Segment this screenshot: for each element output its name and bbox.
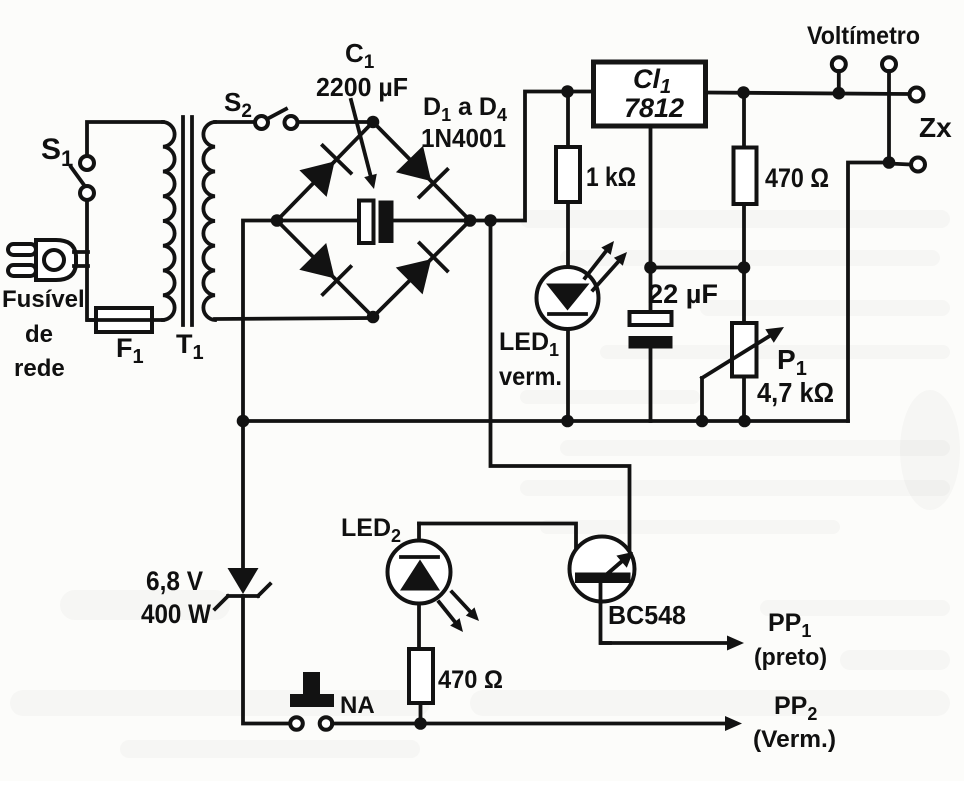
terminal Voltímetro left [832,57,846,93]
label Voltímetro [807,22,920,50]
capacitor 22 µF [629,312,673,421]
transformer T1 primary winding [163,122,175,320]
svg-text:D1 a D4: D1 a D4 [423,93,507,125]
svg-text:(Verm.): (Verm.) [753,726,836,753]
wire: CI1 output to terminals [706,93,910,95]
wire: negative rail to pushbutton [243,596,290,724]
svg-text:6,8 V: 6,8 V [146,566,203,596]
label F1 [116,333,144,368]
capacitor C1 [277,201,470,244]
diode D1 (top-left) [299,146,350,197]
fuse F1 [88,308,163,332]
wire: secondary bottom to bridge bottom node [215,318,373,319]
label D1 a D4 1N4001 [421,93,507,153]
node CI1 output / 470 [737,86,750,99]
potentiometer P1 [702,268,784,422]
label T1 [176,329,204,364]
svg-text:22 µF: 22 µF [648,279,718,309]
node bridge right [464,214,477,227]
resistor 1 kΩ [556,92,580,268]
node PP2 resistor [414,717,427,730]
wire: ground link to 470/P1 junction [651,266,745,270]
terminal Voltímetro right [882,57,896,162]
label Zx [919,112,952,143]
transformer T1 secondary winding [203,122,215,320]
wire: bridge right corner to CI1 input [470,92,593,221]
label S1 [41,133,73,171]
wire: Zx node to ground bus [848,163,889,422]
svg-text:1 kΩ: 1 kΩ [586,162,636,192]
label C1 2200 µF with leader arrow [316,38,408,189]
label PP1 (preto) [754,609,827,671]
diode D3 (bottom-left) [299,243,350,294]
svg-text:Fusível: Fusível [2,286,85,313]
node CI1 input / 1k [561,85,574,98]
label 470 Ω [765,163,829,193]
output PP1 wire and arrow [601,602,745,651]
node Zx lower [883,156,896,169]
label 1 kΩ [586,162,636,192]
wire: top rail S1 to T1 primary [87,122,163,156]
switch S1 [71,156,94,200]
terminal Zx bottom [889,158,925,172]
node bridge left [271,214,284,227]
svg-text:de: de [25,321,53,348]
svg-text:(preto): (preto) [754,644,827,671]
svg-text:4,7 kΩ: 4,7 kΩ [757,377,834,408]
bridge rectifier diamond wires [277,122,470,317]
output PP2 wire and arrow [332,716,742,731]
node ground link right [738,261,751,274]
transistor Q1 BC548 [570,537,635,603]
pushbutton NA [290,672,334,730]
label 6,8 V 400 W [141,566,211,629]
node bus LED1 [561,415,574,428]
wire: ground bus [243,419,848,423]
svg-text:470 Ω: 470 Ω [438,666,503,694]
node voltmeter left [833,87,846,100]
mains plug [8,240,88,280]
resistor 470 Ω (bottom) [409,649,433,724]
node bridge bottom [367,311,380,324]
LED2 [388,524,480,650]
terminal Zx top [910,88,924,102]
node ground link left [644,261,657,274]
zener diode 6,8 V [215,568,270,609]
label S2 [224,87,252,122]
node bus left [237,415,250,428]
svg-text:rede: rede [14,355,65,382]
svg-text:Zx: Zx [919,112,952,143]
wire: CI1 ground pin [649,127,653,313]
svg-text:470 Ω: 470 Ω [765,163,829,193]
svg-text:Voltímetro: Voltímetro [807,22,920,50]
label LED1 verm. [499,328,562,391]
wire: bridge left corner to negative rail [243,221,277,570]
label 470 Ω (bottom) [438,666,503,694]
svg-text:1N4001: 1N4001 [421,123,506,153]
svg-text:verm.: verm. [499,363,562,391]
label BC548 [608,600,686,630]
node bridge top [367,116,380,129]
wire: unregulated positive drop to BC548 collector [491,221,630,554]
wire: S1 through plug tap down to fuse F1 [87,200,96,320]
diode D2 (top-right) [396,146,447,197]
svg-text:7812: 7812 [624,93,684,123]
wire: S2 to bridge top node [298,120,373,124]
svg-text:2200 µF: 2200 µF [316,72,408,102]
transformer T1 core [183,117,192,325]
label LED2 [341,514,401,546]
label NA [340,692,375,719]
LED1 [537,241,628,421]
svg-text:NA: NA [340,692,375,719]
IC CI1 7812 [594,62,706,126]
label 22 µF [648,279,718,309]
label PP2 (Verm.) [753,692,836,753]
wire: LED2 to BC548 base [419,524,576,574]
node bus wiper [696,415,709,428]
label P1 4,7 kΩ [757,344,834,408]
switch S2 [255,109,298,129]
svg-text:BC548: BC548 [608,600,686,630]
resistor 470 Ω (top) [734,93,757,268]
label Fusível de rede [2,286,85,382]
diode D4 (bottom-right) [396,243,447,294]
node bus P1 [738,415,751,428]
svg-text:400 W: 400 W [141,599,211,629]
node unreg tap [484,214,497,227]
wire: secondary top to S2 [215,120,254,124]
